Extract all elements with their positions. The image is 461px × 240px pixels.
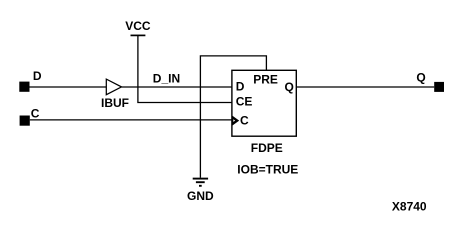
svg-text:D_IN: D_IN [153,72,180,86]
ground GND bar 1 [193,178,208,180]
svg-text:CE: CE [236,95,253,109]
wire D_IN [122,86,233,88]
output pad Q [434,82,444,92]
wire D pad to IBUF [30,86,107,88]
svg-text:IBUF: IBUF [101,96,129,110]
svg-text:GND: GND [187,189,214,203]
buffer U1 IBUF [106,79,121,95]
svg-text:VCC: VCC [125,19,151,33]
svg-text:Q: Q [285,80,294,94]
input pad C [20,116,30,126]
ground GND bar 2 [196,181,205,183]
svg-text:X8740: X8740 [392,200,427,214]
svg-text:D: D [33,69,42,83]
svg-text:IOB=TRUE: IOB=TRUE [237,163,298,177]
svg-text:FDPE: FDPE [251,141,283,155]
wire VCC to CE [138,35,232,102]
input pad D [19,82,29,92]
power VCC bar [131,34,146,36]
wire C [30,119,232,121]
clock chevron pin C [232,116,239,126]
svg-text:D: D [236,80,245,94]
svg-text:PRE: PRE [253,72,278,86]
svg-text:Q: Q [416,71,425,85]
flip-flop U2 FDPE box [232,70,296,136]
ground GND bar 3 [199,185,202,187]
wire Q [296,86,434,88]
wire PRE to GND loop [200,56,266,178]
svg-text:C: C [240,114,249,128]
svg-text:C: C [31,107,40,121]
